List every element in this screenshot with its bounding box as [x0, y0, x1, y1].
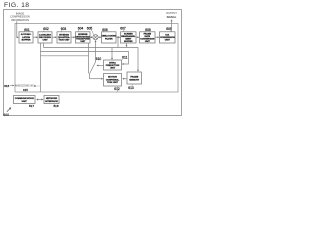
outer frame 600 — [4, 10, 182, 116]
wire 603 to 604 — [71, 36, 74, 38]
svg-text:TION UNIT: TION UNIT — [59, 40, 71, 42]
wire junction 606 drop — [117, 37, 119, 47]
svg-text:615: 615 — [23, 88, 28, 92]
svg-text:UNIT: UNIT — [110, 68, 116, 70]
svg-text:BUFFER: BUFFER — [22, 39, 31, 41]
node OUTPUT SIGNAL label — [166, 11, 177, 19]
wire input to block 601 — [17, 21, 18, 37]
block 603 inverse quantization unit — [57, 27, 71, 43]
svg-text:FIG. 18: FIG. 18 — [4, 2, 29, 9]
wire 601 to 602 — [33, 36, 37, 38]
svg-text:603: 603 — [61, 27, 67, 31]
svg-text:ACCUMU-: ACCUMU- — [21, 33, 32, 36]
svg-text:600: 600 — [3, 113, 9, 117]
switch lever 610 — [90, 62, 96, 73]
svg-text:COMMUNICATION: COMMUNICATION — [15, 97, 34, 100]
node 600 reference — [7, 108, 11, 112]
svg-text:613: 613 — [128, 86, 134, 90]
junction node after 606 — [116, 36, 119, 38]
wire bidirectional 617 618 — [37, 99, 42, 101]
svg-text:UNIT: UNIT — [145, 41, 151, 43]
wire adder to 606 — [98, 36, 100, 38]
block 606 deblocking filter — [101, 28, 116, 43]
wire 602 to 603 — [52, 36, 56, 38]
inner box image decoding device — [15, 24, 178, 93]
svg-text:COMPENSA-: COMPENSA- — [106, 78, 120, 81]
svg-text:609: 609 — [166, 27, 172, 31]
svg-text:BUFFER: BUFFER — [124, 41, 133, 43]
block 617 communication unit — [14, 96, 36, 109]
svg-text:INFORMATION: INFORMATION — [11, 18, 29, 22]
wire bus y52 to intra right — [41, 52, 129, 65]
svg-text:INTERFACE: INTERFACE — [45, 100, 58, 103]
svg-text:QUANTIZA-: QUANTIZA- — [58, 36, 70, 39]
svg-text:604: 604 — [78, 26, 84, 30]
wire branch to intra top — [111, 48, 113, 59]
wire 607 to 608 — [136, 36, 138, 38]
wire adder feed from switch — [95, 41, 97, 62]
wire 608 to 609 — [155, 36, 158, 38]
svg-text:TION UNIT: TION UNIT — [107, 82, 119, 84]
svg-text:D/A: D/A — [165, 33, 169, 36]
svg-text:UNIT: UNIT — [165, 40, 171, 42]
block 607 screen rearrangement buffer — [120, 26, 136, 43]
svg-text:FILTER: FILTER — [105, 38, 113, 40]
block 604 inverse orthogonal transform unit — [75, 26, 91, 43]
wire switch to motion comp — [89, 73, 91, 78]
block 609 D/A conversion unit — [160, 27, 176, 43]
wire 607 bottom drop arrow — [126, 43, 128, 46]
svg-text:PREDICTION: PREDICTION — [106, 65, 120, 67]
block 618 network interface — [44, 96, 59, 109]
block 613 frame memory — [127, 72, 142, 90]
adder 605 — [87, 26, 98, 39]
svg-text:MEMORY: MEMORY — [129, 79, 139, 81]
block 612 motion compensation unit — [104, 74, 122, 92]
svg-text:612: 612 — [114, 87, 120, 91]
wire output up through inner box — [171, 20, 173, 32]
svg-text:SIGNAL: SIGNAL — [167, 15, 177, 19]
svg-text:INTRA: INTRA — [109, 61, 116, 64]
svg-text:610: 610 — [96, 57, 102, 61]
svg-text:LATION: LATION — [22, 36, 30, 39]
block 608 — [140, 28, 156, 43]
svg-text:UNIT: UNIT — [80, 41, 86, 43]
wire 602 drop long — [40, 43, 42, 92]
wire intra out to switch contact — [98, 65, 104, 67]
block 602 lossless decoding unit — [38, 27, 52, 43]
wire 602 drop short — [43, 43, 45, 48]
svg-text:UNIT: UNIT — [22, 101, 28, 103]
wire bus y56 to switch — [41, 55, 89, 57]
svg-text:NETWORK: NETWORK — [46, 98, 58, 100]
block 611 intra prediction unit — [104, 55, 128, 70]
svg-text:DEBLOCKING: DEBLOCKING — [101, 36, 116, 38]
wire 604 to adder — [90, 36, 92, 38]
wire arrow to decoding unit label — [35, 85, 41, 87]
svg-text:MOTION: MOTION — [108, 77, 117, 79]
svg-text:UNIT: UNIT — [42, 40, 48, 42]
node IMAGE COMPRESSION INFORMATION input label — [10, 11, 30, 22]
svg-text:616: 616 — [4, 84, 9, 88]
svg-text:OUTPUT: OUTPUT — [166, 11, 177, 15]
svg-text:FRAME: FRAME — [130, 76, 138, 79]
block 601 storage buffer — [19, 28, 33, 43]
wire frame memory to motion comp — [123, 78, 127, 80]
wire bus y48 to frame memory — [44, 48, 139, 71]
svg-text:607: 607 — [120, 26, 126, 30]
svg-text:606: 606 — [102, 28, 108, 32]
